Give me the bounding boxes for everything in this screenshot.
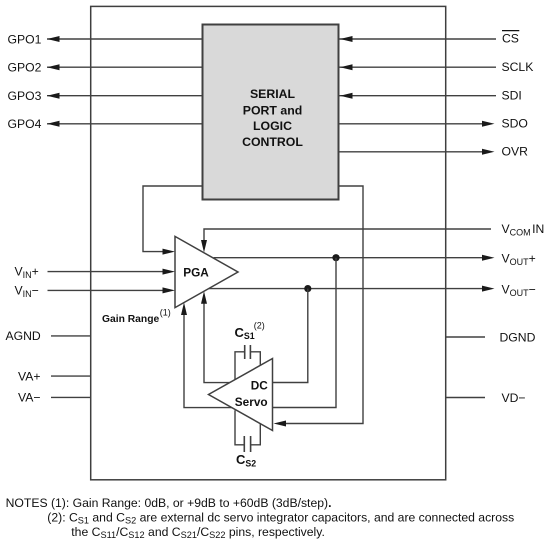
- svg-text:VD−: VD−: [502, 391, 526, 405]
- svg-text:SCLK: SCLK: [502, 60, 534, 74]
- capacitor CS2: [235, 410, 260, 452]
- node junction on VOUT+: [332, 254, 339, 261]
- svg-text:PGA: PGA: [183, 266, 209, 280]
- svg-text:Servo: Servo: [235, 395, 268, 409]
- label Gain Range: [102, 307, 171, 325]
- svg-text:NOTES (1): Gain Range: 0dB, or: NOTES (1): Gain Range: 0dB, or +9dB to +…: [6, 496, 332, 510]
- svg-text:(2): CS1 and CS2 are external: (2): CS1 and CS2 are external dc servo i…: [47, 511, 514, 526]
- svg-text:CS1: CS1: [235, 325, 255, 341]
- svg-text:DGND: DGND: [500, 330, 536, 344]
- svg-text:Gain Range: Gain Range: [102, 314, 159, 325]
- capacitor CS1: [235, 345, 260, 380]
- svg-text:VOUT−: VOUT−: [502, 283, 536, 299]
- pin label CS with overline: [502, 31, 519, 46]
- wire GPO2: [47, 64, 203, 70]
- wire VIN-: [48, 287, 176, 293]
- svg-text:VCOMIN: VCOMIN: [502, 222, 545, 238]
- wire GPO3: [47, 93, 203, 99]
- wire GPO1: [47, 36, 203, 42]
- svg-text:SDO: SDO: [502, 116, 528, 130]
- wire VOUT+ to DC servo input: [273, 258, 336, 408]
- wire logic control to DC servo: [274, 186, 364, 427]
- svg-text:GPO4: GPO4: [8, 117, 42, 131]
- svg-text:CS2: CS2: [236, 452, 256, 468]
- wire DC servo output B to PGA: [181, 303, 232, 408]
- wire VD- stub: [446, 397, 485, 399]
- chip boundary: [91, 6, 446, 479]
- wire OVR: [339, 149, 495, 155]
- op-amp PGA: [175, 236, 238, 307]
- serial port and logic control block U1: [203, 25, 339, 200]
- svg-text:(2): (2): [254, 321, 265, 331]
- wire VA+ stub: [51, 375, 91, 377]
- svg-text:VIN−: VIN−: [15, 283, 39, 299]
- wire VA- stub: [51, 396, 91, 398]
- wire VOUT- to DC servo input: [273, 289, 308, 383]
- svg-text:GPO3: GPO3: [8, 89, 42, 103]
- svg-text:DC: DC: [251, 379, 269, 393]
- wire logic feedback to PGA input: [143, 186, 203, 255]
- wire CS: [339, 36, 496, 42]
- svg-text:LOGIC: LOGIC: [253, 119, 292, 133]
- op-amp DC servo U2: [209, 359, 273, 431]
- wire SDI: [339, 93, 496, 99]
- svg-text:GPO1: GPO1: [8, 32, 42, 46]
- wire DC servo output A to PGA: [201, 291, 230, 382]
- wire SCLK: [339, 64, 496, 70]
- svg-text:CONTROL: CONTROL: [242, 135, 303, 149]
- svg-text:SERIAL: SERIAL: [250, 87, 296, 101]
- svg-text:AGND: AGND: [6, 329, 41, 343]
- svg-text:VIN+: VIN+: [15, 265, 39, 281]
- wire VIN+: [48, 269, 176, 275]
- svg-text:(1): (1): [160, 307, 171, 317]
- value label CS1: [235, 321, 265, 342]
- wire VOUT-: [209, 286, 495, 292]
- svg-text:SDI: SDI: [502, 88, 522, 102]
- wire GPO4: [47, 121, 203, 127]
- svg-text:GPO2: GPO2: [8, 61, 42, 75]
- svg-text:the CS11/CS12 and CS21/CS22 pi: the CS11/CS12 and CS21/CS22 pins, respec…: [71, 525, 325, 540]
- wire VCOM IN: [201, 229, 491, 253]
- wire SDO: [339, 121, 495, 127]
- node junction on VOUT-: [304, 285, 311, 292]
- wire DGND stub: [446, 336, 485, 338]
- svg-text:OVR: OVR: [502, 144, 529, 158]
- svg-text:PORT and: PORT and: [243, 103, 302, 117]
- svg-text:CS: CS: [502, 32, 519, 46]
- wire VOUT+: [214, 255, 495, 261]
- svg-text:VOUT+: VOUT+: [502, 252, 536, 268]
- wire AGND stub: [51, 335, 91, 337]
- svg-text:VA+: VA+: [18, 369, 40, 383]
- svg-text:VA−: VA−: [18, 391, 40, 405]
